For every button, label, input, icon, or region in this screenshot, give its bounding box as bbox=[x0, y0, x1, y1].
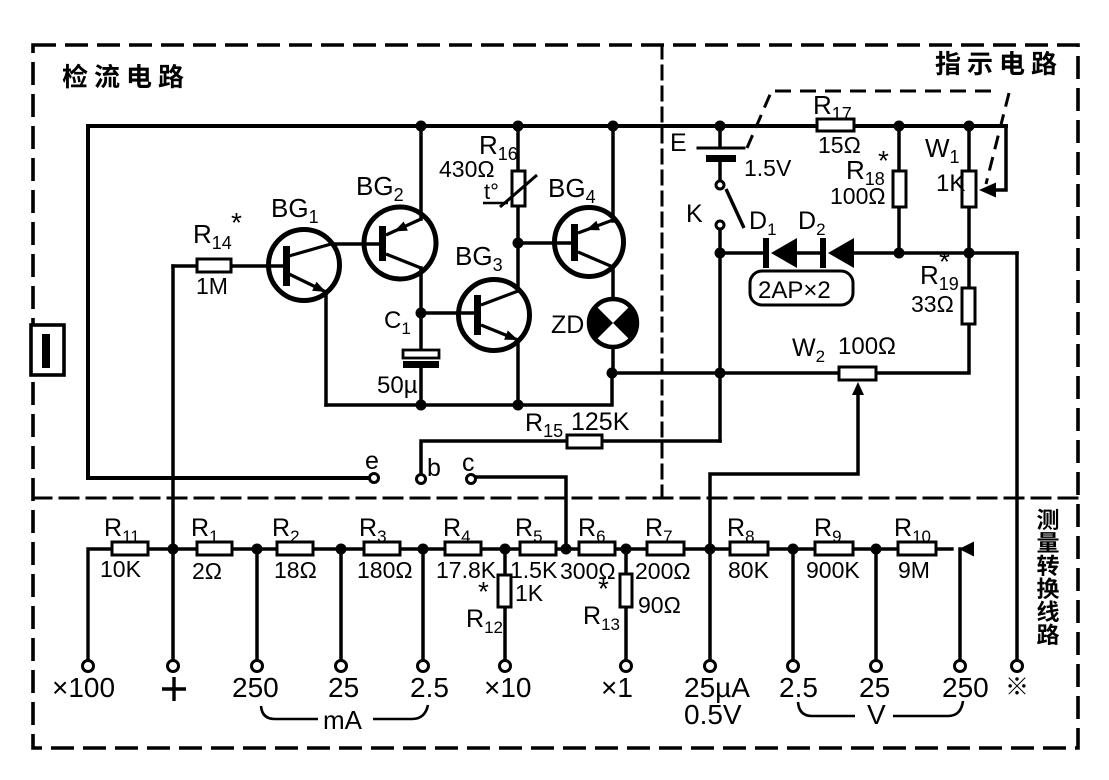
svg-text:×10: ×10 bbox=[484, 672, 532, 703]
wire: R15 left lead to b terminal bbox=[421, 441, 567, 474]
svg-text:t°: t° bbox=[484, 179, 499, 204]
battery E 1.5V bbox=[698, 147, 744, 150]
svg-text:K: K bbox=[686, 200, 703, 228]
resistor R6 bbox=[579, 542, 615, 555]
potentiometer W1 bbox=[962, 171, 976, 207]
svg-text:125K: 125K bbox=[571, 408, 630, 436]
resistor R4 bbox=[445, 542, 481, 555]
svg-text:2Ω: 2Ω bbox=[192, 558, 222, 584]
section divider horizontal (above measurement switching network) bbox=[33, 497, 1078, 500]
node e terminal bbox=[370, 474, 379, 483]
svg-text:0.5V: 0.5V bbox=[684, 699, 742, 730]
wire: BG2 emitter riser bbox=[419, 126, 423, 219]
resistor R19 bbox=[962, 288, 975, 324]
transistor BG3 bbox=[459, 280, 530, 351]
wire: node to BG3 base bbox=[421, 311, 474, 315]
wire: plus-terminal vertical bbox=[171, 266, 175, 661]
wire: terminal drops bbox=[255, 549, 259, 661]
svg-text:2.5: 2.5 bbox=[779, 672, 818, 703]
resistor R18 bbox=[893, 171, 906, 207]
wire: left vertical + top supply rail + e-wire bbox=[88, 126, 1006, 478]
resistor R11 bbox=[112, 542, 148, 555]
mechanical linkage dashed line K to W1 bbox=[747, 90, 772, 148]
svg-text:200Ω: 200Ω bbox=[635, 558, 691, 584]
node b terminal bbox=[417, 475, 426, 484]
junction dots bbox=[416, 121, 427, 132]
resistor R1 bbox=[197, 542, 232, 555]
meter symbol on left border bbox=[31, 325, 64, 375]
wire: W2 row right segment to R19 bbox=[876, 324, 969, 373]
wire: C1 top lead bbox=[419, 313, 423, 351]
range selector arrow at chain end bbox=[959, 542, 974, 557]
wire: W2 wiper to 25uA terminal bbox=[710, 388, 858, 661]
wire: diode row bbox=[720, 251, 764, 255]
svg-text:mA: mA bbox=[323, 705, 363, 735]
resistor R5 bbox=[520, 542, 556, 555]
wire: R19 top lead bbox=[967, 253, 971, 288]
svg-text:50µ: 50µ bbox=[377, 372, 418, 399]
svg-text:2AP×2: 2AP×2 bbox=[758, 277, 831, 304]
wire: c terminal to R5-R6 node bbox=[476, 477, 566, 549]
bracket V bbox=[798, 702, 855, 716]
switch K bbox=[716, 181, 724, 189]
svg-text:100Ω: 100Ω bbox=[838, 333, 896, 360]
svg-text:80K: 80K bbox=[728, 557, 770, 583]
svg-text:×1: ×1 bbox=[601, 672, 633, 703]
indicator lamp ZD bbox=[589, 299, 637, 347]
svg-text:ZD: ZD bbox=[551, 311, 584, 339]
resistor R7 bbox=[647, 542, 684, 555]
svg-text:1.5V: 1.5V bbox=[744, 155, 792, 181]
svg-text:*: * bbox=[598, 573, 609, 604]
wire: BG1 emitter drop bbox=[324, 292, 328, 405]
wire: C1 bottom lead bbox=[419, 367, 423, 405]
svg-text:180Ω: 180Ω bbox=[357, 557, 413, 583]
resistor R13 bbox=[620, 574, 632, 607]
wire: R18 leads bbox=[897, 126, 901, 253]
wire: R15 right lead bbox=[602, 439, 720, 443]
wire: BG4 collector to ZD bbox=[611, 267, 615, 300]
diode D2 bbox=[820, 238, 826, 268]
bracket mA bbox=[261, 706, 318, 719]
wire: W1 wiper drop from rail right end bbox=[993, 126, 1006, 190]
resistor R2 bbox=[277, 542, 313, 555]
wire: resistor row with x100 drop bbox=[88, 549, 952, 661]
svg-text:250: 250 bbox=[942, 672, 989, 703]
svg-text:100Ω: 100Ω bbox=[830, 183, 886, 209]
svg-text:18Ω: 18Ω bbox=[274, 557, 317, 583]
transistor BG1 bbox=[269, 230, 340, 301]
svg-text:90Ω: 90Ω bbox=[638, 592, 681, 618]
svg-text:c: c bbox=[462, 449, 475, 477]
capacitor C1 bbox=[403, 350, 439, 358]
wire: lower rail of detection circuit bbox=[326, 373, 612, 405]
wire: ZD bottom lead bbox=[611, 346, 615, 373]
wire: BG3 emitter drop bbox=[516, 340, 520, 405]
label 检流电路 bbox=[63, 64, 88, 89]
section divider vertical (between detection and indication circuits) bbox=[661, 45, 664, 498]
wire: battery drop from rail bbox=[718, 126, 722, 147]
label 2AP×2 bbox=[750, 271, 853, 305]
svg-text:25: 25 bbox=[328, 672, 359, 703]
wire: BG1 collector to BG2 base bbox=[331, 242, 379, 246]
wire: R14 right lead to BG1 base bbox=[231, 264, 283, 268]
resistor R14 bbox=[197, 259, 231, 272]
wire: W1 leads bbox=[967, 126, 971, 253]
resistor R3 bbox=[364, 542, 400, 555]
resistor R12 bbox=[498, 575, 511, 607]
svg-text:e: e bbox=[365, 447, 379, 475]
thermistor R16 bbox=[512, 171, 525, 206]
wire: BG3 collector riser bbox=[516, 243, 520, 291]
svg-text:10K: 10K bbox=[100, 556, 142, 582]
transistor BG2 bbox=[364, 207, 436, 279]
svg-text:*: * bbox=[231, 207, 242, 238]
svg-text:*: * bbox=[478, 576, 489, 607]
svg-text:*: * bbox=[878, 145, 889, 176]
svg-text:2.5: 2.5 bbox=[410, 672, 449, 703]
potentiometer W2 bbox=[839, 367, 876, 380]
wire: right vertical down to asterisk terminal bbox=[1015, 253, 1019, 661]
svg-text:250: 250 bbox=[232, 672, 279, 703]
resistor R8 bbox=[730, 542, 768, 555]
wire: BG2 collector drop to C1 node bbox=[419, 268, 423, 313]
label 测量转换线路 (vertical) bbox=[1037, 509, 1058, 530]
svg-text:9M: 9M bbox=[898, 557, 930, 583]
resistor R15 bbox=[567, 435, 602, 448]
node c terminal bbox=[467, 475, 476, 484]
diode D1 bbox=[763, 238, 769, 268]
wire: R16 bottom lead to node bbox=[516, 206, 520, 243]
resistor R10 bbox=[898, 542, 936, 555]
svg-text:1M: 1M bbox=[196, 273, 228, 299]
wire: node to BG4 base bbox=[518, 241, 571, 245]
svg-text:E: E bbox=[670, 129, 687, 157]
wire: switch to R15 vertical bbox=[718, 163, 722, 181]
terminal circles bottom row bbox=[83, 661, 94, 672]
svg-text:1K: 1K bbox=[936, 170, 965, 197]
wire: BG4 emitter riser bbox=[611, 126, 615, 221]
svg-text:*: * bbox=[939, 246, 950, 277]
wire: R14 left lead bbox=[173, 264, 197, 268]
svg-text:900K: 900K bbox=[806, 557, 860, 583]
resistor R17 bbox=[817, 119, 854, 131]
transistor BG4 bbox=[555, 208, 624, 277]
svg-text:1K: 1K bbox=[515, 580, 544, 606]
svg-text:×100: ×100 bbox=[52, 672, 115, 703]
resistor R9 bbox=[815, 542, 853, 555]
svg-text:33Ω: 33Ω bbox=[911, 291, 954, 317]
wire: W2 row left segment bbox=[612, 371, 839, 375]
label 指示电路 bbox=[936, 51, 961, 75]
wire: R16 top lead bbox=[516, 126, 520, 171]
svg-text:b: b bbox=[427, 454, 441, 482]
svg-text:V: V bbox=[867, 699, 886, 730]
